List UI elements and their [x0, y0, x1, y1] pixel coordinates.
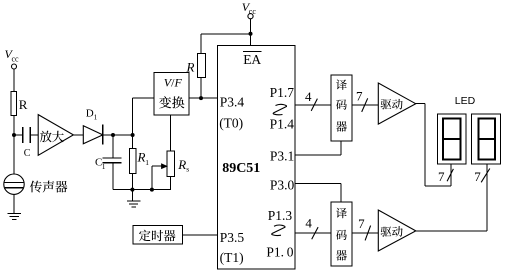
svg-text:7: 7: [358, 216, 365, 231]
svg-text:EA: EA: [243, 52, 261, 67]
svg-text:R: R: [19, 97, 28, 112]
svg-text:V/F: V/F: [164, 76, 183, 90]
svg-text:P3.0: P3.0: [270, 178, 295, 193]
svg-text:4: 4: [305, 215, 312, 230]
svg-text:1: 1: [102, 162, 106, 171]
svg-text:D: D: [86, 108, 94, 120]
svg-text:P1. 0: P1. 0: [266, 245, 293, 260]
svg-text:P3.1: P3.1: [270, 148, 294, 163]
svg-text:7: 7: [474, 169, 481, 184]
svg-text:4: 4: [305, 89, 312, 104]
svg-text:89C51: 89C51: [222, 161, 260, 176]
svg-text:(T1): (T1): [220, 250, 244, 265]
svg-text:P1.3: P1.3: [268, 208, 293, 223]
svg-text:1: 1: [94, 113, 98, 122]
svg-text:P1.7: P1.7: [270, 85, 295, 100]
svg-text:cc: cc: [12, 55, 20, 64]
svg-text:R: R: [177, 157, 186, 172]
svg-text:LED: LED: [455, 95, 476, 107]
svg-text:R: R: [137, 150, 146, 165]
svg-text:(T0): (T0): [219, 116, 243, 131]
svg-text:P3.5: P3.5: [220, 230, 245, 245]
svg-text:C: C: [24, 148, 31, 159]
svg-text:7: 7: [438, 169, 445, 184]
svg-text:P3.4: P3.4: [220, 94, 245, 109]
svg-text:1: 1: [145, 158, 149, 167]
svg-text:P1.4: P1.4: [270, 116, 295, 131]
svg-text:s: s: [186, 165, 189, 174]
svg-text:7: 7: [356, 89, 363, 104]
svg-text:R: R: [186, 60, 195, 75]
